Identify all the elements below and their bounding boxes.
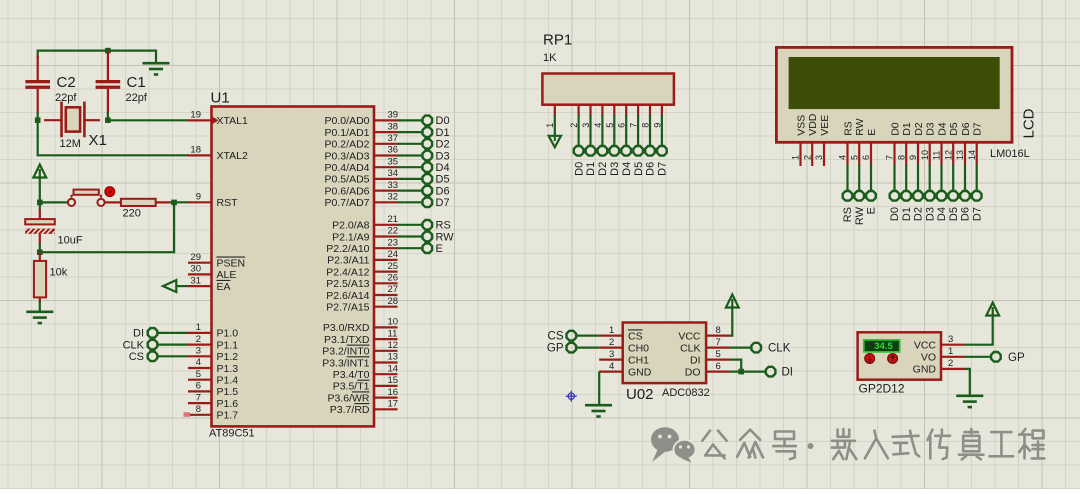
- junction DI DO: [738, 369, 744, 375]
- svg-text:D5: D5: [948, 207, 960, 221]
- U1 pin 35 P0.4/AD4: [325, 156, 399, 174]
- svg-text:CLK: CLK: [680, 342, 700, 354]
- terminal D3: [423, 150, 450, 162]
- svg-text:XTAL1: XTAL1: [217, 115, 248, 127]
- U1 pin 6 P1.5: [188, 381, 238, 399]
- terminal DI U02: [766, 367, 793, 379]
- terminal D2 LCD: [913, 191, 925, 221]
- U1 pin 11 P3.1/TXD: [324, 328, 398, 346]
- svg-text:X1: X1: [89, 132, 107, 149]
- svg-text:9: 9: [196, 192, 201, 203]
- svg-text:34: 34: [388, 168, 399, 179]
- junction reset top: [37, 200, 43, 206]
- terminal D7 LCD: [971, 191, 983, 221]
- svg-text:24: 24: [388, 249, 399, 260]
- svg-text:22: 22: [388, 226, 399, 237]
- svg-text:14: 14: [967, 150, 977, 160]
- wire terminal CS to P1.2: [157, 355, 188, 357]
- LCD LM016L body: [776, 47, 1012, 142]
- svg-text:7: 7: [196, 392, 201, 403]
- svg-text:P3.5/T1: P3.5/T1: [333, 381, 370, 393]
- U1 pin 7 P1.6: [188, 392, 238, 410]
- svg-text:D7: D7: [972, 122, 984, 136]
- U1 pin 1 P1.0: [188, 322, 238, 340]
- svg-text:D5: D5: [633, 162, 645, 176]
- terminal RW: [423, 231, 455, 243]
- svg-text:D1: D1: [901, 207, 913, 221]
- terminal D2: [423, 139, 450, 151]
- terminal D5 LCD: [948, 191, 960, 221]
- terminal D0 RP1: [573, 146, 585, 176]
- wire GP2D12 VCC to power: [965, 314, 993, 345]
- RP1 pin 4: [593, 105, 603, 128]
- svg-text:12M: 12M: [60, 138, 81, 150]
- svg-text:D0: D0: [889, 207, 901, 221]
- wire DO to terminal DI: [730, 371, 766, 373]
- resistor 220: [105, 199, 172, 220]
- terminal D0: [423, 115, 450, 127]
- svg-text:D3: D3: [925, 122, 937, 136]
- power arrow U02: [726, 295, 739, 308]
- terminal CS P1.2: [129, 351, 158, 363]
- svg-text:C1: C1: [127, 74, 146, 91]
- svg-text:XTAL2: XTAL2: [217, 150, 248, 162]
- wire DI pin to DO net: [730, 360, 742, 372]
- terminal D4 LCD: [936, 191, 948, 221]
- wire terminal CLK to P1.1: [157, 344, 188, 346]
- U1 pin 37 P0.2/AD2: [325, 133, 399, 151]
- U1 pin 32 P0.7/AD7: [325, 192, 399, 210]
- LCD pin 2 VDD: [802, 113, 819, 166]
- svg-text:31: 31: [190, 275, 201, 286]
- svg-text:4: 4: [838, 155, 848, 160]
- wire P0.4 to terminal: [398, 166, 423, 168]
- wire LCD pin 12 to terminal: [952, 165, 954, 192]
- svg-text:27: 27: [388, 284, 399, 295]
- GP2D12 pin 2 GND: [913, 358, 965, 376]
- svg-text:CS: CS: [628, 330, 643, 342]
- junction RST: [171, 200, 177, 206]
- svg-text:10: 10: [388, 317, 399, 328]
- junction cap bottom: [37, 249, 43, 255]
- terminal D6 LCD: [960, 191, 972, 221]
- wire LCD pin 11 to terminal: [940, 165, 942, 192]
- resistor 10k: [34, 252, 68, 303]
- svg-text:P1.6: P1.6: [217, 398, 239, 410]
- U1 pin 10 P3.0/RXD: [323, 317, 398, 335]
- svg-text:D1: D1: [436, 127, 450, 139]
- U1 pin 22 P2.1/A9: [332, 226, 398, 244]
- svg-text:23: 23: [388, 237, 399, 248]
- svg-text:38: 38: [388, 121, 399, 132]
- wire GP to CH0: [576, 347, 599, 349]
- power arrow reset: [33, 165, 46, 178]
- svg-text:PSEN: PSEN: [217, 258, 246, 270]
- wire P2.0 to terminal: [398, 224, 423, 226]
- wire LCD pin 13 to terminal: [964, 165, 966, 192]
- U1 pin 14 P3.4/T0: [333, 363, 398, 381]
- svg-text:7: 7: [716, 337, 721, 348]
- terminal D6 RP1: [645, 146, 657, 176]
- svg-text:DI: DI: [782, 367, 794, 379]
- terminal D3 RP1: [609, 146, 621, 176]
- svg-text:P3.4/T0: P3.4/T0: [333, 369, 370, 381]
- U02 pin 3 CH1: [599, 349, 649, 367]
- watermark wechat icon: [651, 427, 696, 462]
- ground arrow RP1: [549, 136, 561, 147]
- svg-text:D7: D7: [657, 162, 669, 176]
- U02 pin 4 GND: [599, 361, 652, 379]
- svg-text:CS: CS: [548, 331, 564, 343]
- svg-text:22pf: 22pf: [55, 92, 77, 104]
- svg-text:D1: D1: [901, 122, 913, 136]
- svg-text:D7: D7: [971, 207, 983, 221]
- svg-text:12: 12: [943, 150, 953, 160]
- terminal RS: [423, 220, 451, 232]
- svg-text:4: 4: [196, 357, 201, 368]
- terminal E LCD: [866, 191, 878, 214]
- svg-text:VEE: VEE: [819, 115, 831, 136]
- P1.7 red mark: [184, 412, 191, 417]
- U1 pin 23 P2.2/A10: [326, 237, 398, 255]
- GP2D12 knob 2: [888, 354, 898, 364]
- svg-text:CLK: CLK: [123, 339, 145, 351]
- terminal RS LCD: [842, 191, 854, 222]
- terminal D0 LCD: [889, 191, 901, 221]
- U1 pin 9 RST: [188, 192, 238, 210]
- svg-text:18: 18: [190, 145, 201, 156]
- svg-text:P3.0/RXD: P3.0/RXD: [323, 322, 370, 334]
- svg-text:P0.5/AD5: P0.5/AD5: [325, 174, 370, 186]
- svg-text:LM016L: LM016L: [990, 148, 1030, 160]
- svg-text:13: 13: [955, 150, 965, 160]
- wire RP1 pin 3 to terminal: [589, 115, 591, 146]
- wire LCD pin 4 to terminal: [846, 165, 848, 192]
- terminal GP U02: [547, 343, 576, 355]
- terminal CLK P1.1: [123, 339, 158, 351]
- svg-text:1: 1: [791, 155, 801, 160]
- wire RP1 pin 5 to terminal: [613, 115, 615, 146]
- svg-text:3: 3: [609, 349, 614, 360]
- terminal D4: [423, 162, 450, 174]
- svg-text:22pf: 22pf: [126, 92, 148, 104]
- RP1 pin 8: [641, 105, 651, 128]
- svg-text:2: 2: [609, 337, 614, 348]
- GP2D12 knob 1: [865, 354, 875, 364]
- terminal D1: [423, 127, 450, 139]
- svg-text:13: 13: [388, 352, 399, 363]
- terminal GP GP2D12: [991, 352, 1025, 364]
- svg-text:P3.1/TXD: P3.1/TXD: [324, 334, 370, 346]
- watermark text: [702, 431, 726, 459]
- svg-text:GP2D12: GP2D12: [859, 382, 905, 396]
- svg-text:RS: RS: [842, 121, 854, 136]
- terminal D5: [423, 174, 450, 186]
- svg-text:17: 17: [388, 399, 399, 410]
- svg-text:37: 37: [388, 133, 399, 144]
- terminal DI P1.0: [133, 328, 157, 340]
- svg-text:12: 12: [388, 340, 399, 351]
- U1 pin 33 P0.6/AD6: [325, 180, 399, 198]
- node XTAL1 junction: [105, 117, 111, 123]
- capacitor C1: [96, 51, 148, 121]
- svg-text:VCC: VCC: [678, 330, 701, 342]
- U1 pin 30 ALE: [188, 264, 236, 282]
- svg-text:P2.3/A11: P2.3/A11: [327, 255, 370, 267]
- wire P0.6 to terminal: [398, 190, 423, 192]
- U1 pin 2 P1.1: [188, 334, 238, 352]
- terminal D7: [423, 197, 450, 209]
- ground crystal area: [143, 63, 170, 74]
- RP1 pin 3: [581, 105, 591, 128]
- svg-text:AT89C51: AT89C51: [209, 428, 255, 440]
- svg-text:D6: D6: [645, 162, 657, 176]
- svg-text:D0: D0: [436, 115, 450, 127]
- RP1 pin 2: [569, 105, 579, 128]
- svg-text:220: 220: [123, 208, 141, 220]
- svg-text:2: 2: [196, 334, 201, 345]
- wire P2.1 to terminal: [398, 235, 423, 237]
- terminal E: [423, 243, 443, 255]
- svg-text:30: 30: [190, 264, 201, 275]
- RP1 pin 7: [629, 105, 639, 128]
- junction top C1: [105, 48, 111, 54]
- terminal CLK U02: [751, 343, 790, 355]
- U1 pin 38 P0.1/AD1: [325, 121, 399, 139]
- svg-text:35: 35: [388, 156, 399, 167]
- LCD pin 11 D4: [932, 122, 949, 166]
- wire VCC U02 to power: [730, 306, 733, 336]
- svg-text:D0: D0: [889, 122, 901, 136]
- svg-text:ADC0832: ADC0832: [662, 387, 710, 399]
- svg-text:16: 16: [388, 387, 399, 398]
- svg-text:P2.1/A9: P2.1/A9: [332, 231, 370, 243]
- svg-text:P2.2/A10: P2.2/A10: [326, 243, 369, 255]
- LCD pin 9 D2: [908, 122, 925, 166]
- svg-text:P1.2: P1.2: [217, 351, 239, 363]
- LCD pin 13 D6: [955, 122, 972, 166]
- U1 pin 13 P3.3/INT1: [322, 352, 398, 370]
- wire P0.7 to terminal: [398, 201, 423, 203]
- wire P0.0 to terminal: [398, 119, 423, 121]
- terminal D3 LCD: [924, 191, 936, 221]
- resistor pack RP1 body: [542, 74, 674, 105]
- LCD pin 10 D3: [920, 122, 937, 166]
- svg-text:3: 3: [814, 155, 824, 160]
- svg-text:GND: GND: [913, 364, 937, 376]
- U1 pin 18 XTAL2: [188, 145, 248, 163]
- wire LCD pin 7 to terminal: [893, 165, 895, 192]
- svg-text:RST: RST: [217, 197, 239, 209]
- svg-text:P0.1/AD1: P0.1/AD1: [325, 127, 370, 139]
- wire CLK U02 to terminal: [730, 347, 752, 349]
- LCD pin 8 D1: [896, 122, 913, 166]
- svg-text:21: 21: [388, 214, 399, 225]
- svg-text:1: 1: [948, 346, 953, 357]
- LCD pin 7 D0: [885, 122, 902, 166]
- RP1 pin 1: [545, 105, 555, 128]
- svg-text:P0.7/AD7: P0.7/AD7: [325, 197, 370, 209]
- svg-text:E: E: [436, 243, 443, 255]
- button red indicator: [105, 187, 115, 197]
- LCD pin 3 VEE: [814, 115, 831, 166]
- wire to button: [40, 201, 68, 203]
- svg-text:RW: RW: [854, 206, 866, 225]
- U1 pin 28 P2.7/A15: [326, 296, 398, 314]
- svg-text:2: 2: [948, 358, 953, 369]
- wire LCD pin 9 to terminal: [917, 165, 919, 192]
- wire P0.5 to terminal: [398, 178, 423, 180]
- U1 pin 8 P1.7: [188, 404, 238, 422]
- push button: [68, 190, 105, 206]
- wire GND U02 to ground: [598, 372, 600, 405]
- RP1 pin 9: [652, 105, 662, 128]
- svg-text:P1.0: P1.0: [217, 328, 239, 340]
- svg-text:1: 1: [196, 322, 201, 333]
- chip U02 ADC0832 body: [623, 323, 706, 384]
- svg-text:5: 5: [196, 369, 201, 380]
- svg-text:14: 14: [388, 363, 399, 374]
- svg-text:U1: U1: [211, 90, 230, 107]
- svg-text:P1.3: P1.3: [217, 363, 239, 375]
- svg-text:1: 1: [609, 325, 614, 336]
- svg-text:6: 6: [196, 381, 201, 392]
- capacitor C2: [25, 56, 77, 120]
- svg-text:D5: D5: [948, 122, 960, 136]
- svg-text:RP1: RP1: [543, 32, 572, 49]
- U1 pin 19 XTAL1: [188, 110, 248, 128]
- U1 pin 36 P0.3/AD3: [325, 145, 399, 163]
- wire LCD pin 14 to terminal: [976, 165, 978, 192]
- wire RP1 pin1 to ground arrow: [554, 115, 556, 137]
- svg-text:D4: D4: [936, 122, 948, 136]
- wire top C2 to C1 to ground: [38, 51, 156, 63]
- svg-text:RW: RW: [436, 231, 455, 243]
- svg-text:D3: D3: [609, 162, 621, 176]
- svg-text:33: 33: [388, 180, 399, 191]
- svg-text:GP: GP: [547, 343, 564, 355]
- svg-text:34.5: 34.5: [874, 341, 893, 352]
- svg-text:CS: CS: [129, 351, 144, 363]
- svg-text:P0.0/AD0: P0.0/AD0: [325, 115, 370, 127]
- origin marker blue: [566, 391, 577, 402]
- svg-text:CH1: CH1: [628, 354, 649, 366]
- svg-text:6: 6: [716, 361, 721, 372]
- U1 pin 31 EA: [188, 275, 231, 293]
- wire RP1 pin 7 to terminal: [637, 115, 639, 146]
- svg-text:26: 26: [388, 273, 399, 284]
- U1 pin 17 P3.7/RD: [330, 399, 398, 417]
- ground reset: [26, 312, 53, 323]
- svg-text:D7: D7: [436, 197, 450, 209]
- svg-text:5: 5: [849, 155, 859, 160]
- svg-text:RS: RS: [842, 207, 854, 222]
- svg-text:P0.6/AD6: P0.6/AD6: [325, 185, 370, 197]
- svg-text:P1.7: P1.7: [217, 410, 239, 422]
- U1 pin 5 P1.4: [188, 369, 238, 387]
- svg-text:P3.3/INT1: P3.3/INT1: [322, 357, 369, 369]
- svg-text:D6: D6: [960, 122, 972, 136]
- capacitor 10uF: [25, 202, 83, 252]
- LCD pin 5 RW: [849, 118, 866, 166]
- U1 pin 21 P2.0/A8: [332, 214, 398, 232]
- node XTAL2 junction: [35, 117, 41, 123]
- svg-text:P2.5/A13: P2.5/A13: [326, 278, 369, 290]
- terminal D1 LCD: [901, 191, 913, 221]
- svg-text:36: 36: [388, 145, 399, 156]
- svg-text:LCD: LCD: [1021, 108, 1038, 138]
- terminal D5 RP1: [633, 146, 645, 176]
- svg-text:10k: 10k: [50, 267, 68, 279]
- sensor GP2D12 body: [858, 332, 941, 379]
- U02 pin 7 CLK: [680, 337, 730, 355]
- svg-text:P2.7/A15: P2.7/A15: [326, 302, 369, 314]
- svg-text:VCC: VCC: [914, 340, 937, 352]
- wire LCD pin 8 to terminal: [905, 165, 907, 192]
- svg-text:P0.3/AD3: P0.3/AD3: [325, 150, 370, 162]
- LCD pin 14 D7: [967, 122, 984, 166]
- svg-text:D6: D6: [960, 207, 972, 221]
- svg-text:D2: D2: [913, 122, 925, 136]
- svg-text:VO: VO: [921, 352, 936, 364]
- wire GND GP2D12 to ground: [965, 369, 970, 395]
- RP1 pin 5: [605, 105, 615, 128]
- U1 pin 24 P2.3/A11: [327, 249, 398, 267]
- svg-text:7: 7: [885, 155, 895, 160]
- svg-text:P1.4: P1.4: [217, 375, 239, 387]
- wire LCD pin 5 to terminal: [858, 165, 860, 192]
- svg-text:11: 11: [388, 328, 398, 339]
- svg-text:P1.1: P1.1: [217, 339, 239, 351]
- ground GP2D12: [956, 396, 983, 407]
- wire RP1 pin 8 to terminal: [649, 115, 651, 146]
- svg-text:VSS: VSS: [795, 115, 807, 136]
- terminal D6: [423, 185, 450, 197]
- svg-text:P3.2/INT0: P3.2/INT0: [322, 346, 369, 358]
- U02 pin 1 CS: [599, 325, 642, 343]
- svg-text:4: 4: [609, 361, 614, 372]
- svg-text:D4: D4: [936, 207, 948, 221]
- svg-text:E: E: [866, 129, 878, 136]
- svg-text:1K: 1K: [543, 52, 557, 64]
- svg-text:D3: D3: [436, 150, 450, 162]
- svg-text:D1: D1: [585, 162, 597, 176]
- U1 pin 12 P3.2/INT0: [322, 340, 398, 358]
- svg-text:9: 9: [908, 155, 918, 160]
- wire P0.2 to terminal: [398, 143, 423, 145]
- U02 pin 6 DO: [685, 361, 730, 379]
- U02 pin 5 DI: [690, 349, 730, 367]
- svg-text:32: 32: [388, 192, 399, 203]
- svg-text:D2: D2: [913, 207, 925, 221]
- svg-text:8: 8: [716, 325, 721, 336]
- svg-text:P2.6/A14: P2.6/A14: [326, 290, 369, 302]
- U1 pin 29 PSEN: [188, 252, 245, 270]
- LCD pin 6 E: [861, 129, 878, 166]
- svg-text:D6: D6: [436, 185, 450, 197]
- EA arrow: [163, 280, 176, 292]
- wire CS to U02: [576, 335, 599, 337]
- svg-text:CH0: CH0: [628, 342, 649, 354]
- GP2D12 display 34.5: [864, 340, 900, 352]
- svg-text:5: 5: [716, 349, 721, 360]
- op chip U1 AT89C51 body: [212, 107, 375, 427]
- svg-text:D4: D4: [621, 162, 633, 176]
- GP2D12 pin 1 VO: [921, 346, 965, 364]
- terminal CS U02: [548, 331, 577, 343]
- XTAL1 clock arrow: [213, 117, 219, 124]
- svg-text:RS: RS: [436, 220, 451, 232]
